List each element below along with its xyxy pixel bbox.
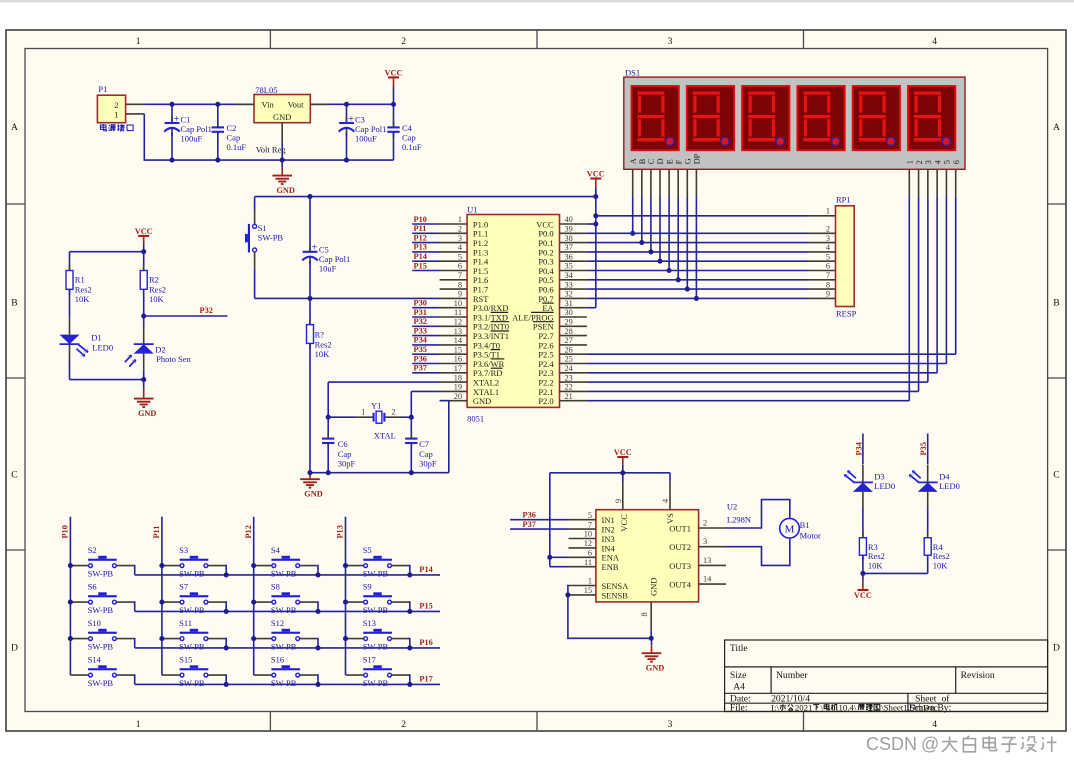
svg-text:A: A xyxy=(1053,122,1060,133)
svg-text:S12: S12 xyxy=(271,618,284,628)
svg-text:C1: C1 xyxy=(181,114,191,124)
svg-text:Drawn By:: Drawn By: xyxy=(909,702,951,713)
svg-text:Size: Size xyxy=(730,670,747,681)
svg-text:Cap: Cap xyxy=(338,449,352,459)
svg-text:1: 1 xyxy=(114,110,118,120)
svg-text:33: 33 xyxy=(565,280,573,289)
svg-text:File:: File: xyxy=(730,703,748,714)
svg-text:A: A xyxy=(629,158,638,164)
svg-text:14: 14 xyxy=(454,336,463,345)
svg-text:3: 3 xyxy=(668,719,673,730)
svg-text:38: 38 xyxy=(565,234,573,243)
svg-text:21: 21 xyxy=(565,392,573,401)
svg-text:SW-PB: SW-PB xyxy=(88,605,114,615)
svg-text:1: 1 xyxy=(136,36,141,47)
svg-text:SW-PB: SW-PB xyxy=(271,605,297,615)
svg-text:2: 2 xyxy=(401,36,406,47)
svg-text:S4: S4 xyxy=(271,545,281,555)
svg-text:0.1uF: 0.1uF xyxy=(402,142,422,152)
svg-text:P32: P32 xyxy=(200,306,213,315)
svg-text:P2.0: P2.0 xyxy=(538,396,553,406)
svg-text:VS: VS xyxy=(665,513,675,524)
svg-text:GND: GND xyxy=(276,186,294,195)
svg-text:100uF: 100uF xyxy=(181,133,203,143)
svg-text:GND: GND xyxy=(138,409,156,418)
svg-text:10uF: 10uF xyxy=(319,263,337,273)
svg-text:P34: P34 xyxy=(854,442,863,455)
svg-text:RP1: RP1 xyxy=(836,195,851,205)
svg-text:S17: S17 xyxy=(363,655,376,665)
svg-text:Revision: Revision xyxy=(961,670,995,681)
svg-text:SW-PB: SW-PB xyxy=(271,569,297,579)
svg-text:3: 3 xyxy=(703,537,707,546)
svg-text:S7: S7 xyxy=(179,582,188,592)
svg-text:RESP: RESP xyxy=(836,309,857,319)
svg-text:5: 5 xyxy=(588,511,592,520)
svg-text:E: E xyxy=(665,159,674,164)
svg-text:Title: Title xyxy=(730,643,748,654)
svg-text:13: 13 xyxy=(454,327,462,336)
svg-text:14: 14 xyxy=(703,575,712,584)
svg-text:24: 24 xyxy=(565,364,574,373)
svg-text:VCC: VCC xyxy=(385,69,403,78)
svg-text:SW-PB: SW-PB xyxy=(363,605,389,615)
svg-text:B: B xyxy=(11,298,17,309)
svg-text:26: 26 xyxy=(565,345,573,354)
svg-text:1: 1 xyxy=(588,577,592,586)
svg-text:P11: P11 xyxy=(152,526,161,539)
svg-text:9: 9 xyxy=(826,290,830,299)
svg-text:S10: S10 xyxy=(88,618,101,628)
svg-text:S5: S5 xyxy=(363,545,372,555)
svg-text:VCC: VCC xyxy=(854,591,872,600)
svg-text:M: M xyxy=(785,523,795,535)
svg-text:P15: P15 xyxy=(419,602,432,611)
svg-text:6: 6 xyxy=(458,262,462,271)
svg-text:D: D xyxy=(1053,643,1060,654)
svg-text:1: 1 xyxy=(906,160,915,164)
svg-text:VCC: VCC xyxy=(135,227,153,236)
svg-text:25: 25 xyxy=(565,355,573,364)
svg-text:9: 9 xyxy=(614,499,623,503)
svg-text:P14: P14 xyxy=(414,252,427,261)
svg-text:P30: P30 xyxy=(414,299,427,308)
svg-text:Cap: Cap xyxy=(227,133,241,143)
svg-text:P14: P14 xyxy=(419,565,432,574)
svg-text:31: 31 xyxy=(565,299,573,308)
svg-text:S2: S2 xyxy=(88,545,97,555)
svg-text:Y1: Y1 xyxy=(371,401,381,411)
svg-text:GND: GND xyxy=(473,396,491,406)
svg-text:Motor: Motor xyxy=(800,530,821,540)
svg-text:17: 17 xyxy=(454,364,462,373)
svg-text:F: F xyxy=(674,159,683,164)
svg-text:7: 7 xyxy=(588,520,592,529)
svg-text:S8: S8 xyxy=(271,582,280,592)
svg-text:S13: S13 xyxy=(363,618,376,628)
svg-text:Cap Pol1: Cap Pol1 xyxy=(319,254,350,264)
svg-text:8051: 8051 xyxy=(467,413,484,423)
svg-text:8: 8 xyxy=(640,612,649,616)
svg-text:32: 32 xyxy=(565,290,573,299)
svg-text:P36: P36 xyxy=(414,354,427,363)
svg-text:S16: S16 xyxy=(271,655,284,665)
svg-text:VCC: VCC xyxy=(614,448,632,457)
svg-text:P15: P15 xyxy=(414,261,427,270)
svg-text:40: 40 xyxy=(565,215,573,224)
svg-text:A4: A4 xyxy=(733,682,745,693)
svg-text:C6: C6 xyxy=(338,439,348,449)
svg-text:16: 16 xyxy=(454,355,462,364)
svg-text:D4: D4 xyxy=(939,472,950,482)
svg-text:12: 12 xyxy=(584,539,592,548)
svg-text:P31: P31 xyxy=(414,308,427,317)
svg-text:30: 30 xyxy=(565,308,573,317)
svg-text:2: 2 xyxy=(915,160,924,164)
svg-text:U2: U2 xyxy=(727,501,737,511)
svg-text:GND: GND xyxy=(649,578,659,596)
svg-text:Cap: Cap xyxy=(402,133,416,143)
svg-text:SW-PB: SW-PB xyxy=(363,642,389,652)
svg-text:S15: S15 xyxy=(179,655,192,665)
svg-text:C7: C7 xyxy=(419,439,429,449)
svg-text:B: B xyxy=(1053,298,1059,309)
svg-text:I:\: I:\ xyxy=(771,702,779,712)
svg-text:5: 5 xyxy=(826,252,830,261)
svg-text:D: D xyxy=(656,158,665,164)
svg-text:S11: S11 xyxy=(179,618,192,628)
svg-text:12: 12 xyxy=(454,318,462,327)
svg-text:D2: D2 xyxy=(155,345,165,355)
svg-text:2: 2 xyxy=(392,408,396,417)
svg-text:DP: DP xyxy=(693,153,702,164)
svg-text:3: 3 xyxy=(668,36,673,47)
svg-text:Vout: Vout xyxy=(288,100,305,110)
svg-text:5: 5 xyxy=(458,252,462,261)
svg-text:2: 2 xyxy=(703,518,707,527)
svg-text:D: D xyxy=(11,643,18,654)
svg-text:P17: P17 xyxy=(419,675,432,684)
svg-text:Res2: Res2 xyxy=(75,284,92,294)
svg-text:2: 2 xyxy=(826,225,830,234)
svg-text:30pF: 30pF xyxy=(419,458,437,468)
svg-text:C5: C5 xyxy=(319,244,329,254)
svg-text:36: 36 xyxy=(565,252,573,261)
svg-text:23: 23 xyxy=(565,373,573,382)
svg-text:Cap Pol1: Cap Pol1 xyxy=(355,124,386,134)
svg-text:OUT4: OUT4 xyxy=(669,580,691,590)
svg-text:Res2: Res2 xyxy=(868,551,885,561)
svg-text:LED0: LED0 xyxy=(939,481,960,491)
svg-text:S6: S6 xyxy=(88,582,97,592)
svg-text:C3: C3 xyxy=(355,114,365,124)
svg-text:P10: P10 xyxy=(414,215,427,224)
svg-text:SW-PB: SW-PB xyxy=(179,569,205,579)
svg-text:13: 13 xyxy=(703,556,711,565)
svg-text:Cap: Cap xyxy=(419,449,433,459)
svg-text:Cap Pol1: Cap Pol1 xyxy=(181,124,212,134)
svg-text:S14: S14 xyxy=(88,655,102,665)
svg-text:10K: 10K xyxy=(75,294,91,304)
svg-text:1: 1 xyxy=(361,408,365,417)
svg-text:10: 10 xyxy=(584,530,592,539)
svg-text:P1: P1 xyxy=(98,84,107,94)
svg-text:SW-PB: SW-PB xyxy=(179,605,205,615)
svg-text:10K: 10K xyxy=(315,349,331,359)
svg-text:2: 2 xyxy=(401,719,406,730)
svg-text:34: 34 xyxy=(565,271,574,280)
svg-text:10: 10 xyxy=(454,299,462,308)
svg-text:7: 7 xyxy=(826,271,830,280)
svg-text:100uF: 100uF xyxy=(355,133,377,143)
svg-text:A: A xyxy=(11,122,18,133)
svg-text:10K: 10K xyxy=(933,561,949,571)
svg-text:15: 15 xyxy=(454,345,462,354)
svg-text:G: G xyxy=(684,158,693,164)
svg-text:4: 4 xyxy=(932,719,937,730)
svg-text:1: 1 xyxy=(826,206,830,215)
svg-text:SW-PB: SW-PB xyxy=(88,678,114,688)
svg-text:DS1: DS1 xyxy=(625,67,640,77)
svg-text:1: 1 xyxy=(136,719,141,730)
svg-text:Photo Sen: Photo Sen xyxy=(156,354,191,364)
svg-text:3: 3 xyxy=(458,234,462,243)
svg-text:30pF: 30pF xyxy=(338,458,356,468)
svg-text:8: 8 xyxy=(826,280,830,289)
svg-text:VCC: VCC xyxy=(619,514,629,532)
svg-text:VCC: VCC xyxy=(587,170,605,179)
svg-text:SENSB: SENSB xyxy=(602,590,629,600)
svg-text:LED0: LED0 xyxy=(874,481,895,491)
svg-text:R?: R? xyxy=(315,329,325,339)
svg-text:37: 37 xyxy=(565,243,573,252)
svg-text:S3: S3 xyxy=(179,545,188,555)
svg-text:P34: P34 xyxy=(414,336,427,345)
svg-text:Number: Number xyxy=(776,670,808,681)
svg-text:28: 28 xyxy=(565,327,573,336)
svg-text:S9: S9 xyxy=(363,582,372,592)
svg-text:SW-PB: SW-PB xyxy=(363,678,389,688)
svg-text:0.1uF: 0.1uF xyxy=(227,142,247,152)
svg-text:Res2: Res2 xyxy=(149,284,166,294)
svg-text:SW-PB: SW-PB xyxy=(363,569,389,579)
svg-text:Res2: Res2 xyxy=(315,339,332,349)
svg-text:U1: U1 xyxy=(467,204,477,214)
svg-text:10K: 10K xyxy=(149,294,165,304)
svg-text:P37: P37 xyxy=(414,364,427,373)
svg-text:+: + xyxy=(348,114,354,125)
svg-text:11: 11 xyxy=(584,558,592,567)
svg-text:3: 3 xyxy=(826,234,830,243)
svg-text:GND: GND xyxy=(646,664,664,673)
svg-text:C: C xyxy=(647,158,656,164)
svg-text:ENB: ENB xyxy=(602,562,619,572)
svg-text:15: 15 xyxy=(584,586,592,595)
svg-text:27: 27 xyxy=(565,336,573,345)
svg-text:Vin: Vin xyxy=(262,100,275,110)
svg-text:5: 5 xyxy=(943,160,952,164)
svg-text:P13: P13 xyxy=(336,525,345,538)
svg-text:8: 8 xyxy=(458,280,462,289)
svg-text:78L05: 78L05 xyxy=(255,85,277,95)
svg-text:10K: 10K xyxy=(868,561,884,571)
svg-text:35: 35 xyxy=(565,262,573,271)
svg-text:C: C xyxy=(1053,470,1059,481)
svg-text:OUT2: OUT2 xyxy=(669,542,691,552)
svg-text:6: 6 xyxy=(952,160,961,164)
svg-text:B: B xyxy=(638,158,647,164)
svg-text:2021: 2021 xyxy=(795,702,813,712)
svg-text:B1: B1 xyxy=(800,520,810,530)
svg-text:18: 18 xyxy=(454,373,462,382)
svg-text:P10: P10 xyxy=(61,525,70,538)
svg-text:D1: D1 xyxy=(91,333,101,343)
svg-text:C4: C4 xyxy=(402,123,413,133)
svg-text:OUT3: OUT3 xyxy=(669,561,691,571)
svg-text:Res2: Res2 xyxy=(933,551,950,561)
svg-text:29: 29 xyxy=(565,318,573,327)
svg-text:LED0: LED0 xyxy=(92,342,113,352)
svg-text:P16: P16 xyxy=(419,638,432,647)
svg-text:P35: P35 xyxy=(414,345,427,354)
svg-text:SW-PB: SW-PB xyxy=(271,678,297,688)
svg-text:P32: P32 xyxy=(414,317,427,326)
svg-text:S1: S1 xyxy=(258,223,267,233)
svg-text:P11: P11 xyxy=(414,224,427,233)
svg-text:+: + xyxy=(312,243,318,254)
svg-text:SW-PB: SW-PB xyxy=(88,642,114,652)
svg-text:P33: P33 xyxy=(414,326,427,335)
svg-text:P12: P12 xyxy=(244,525,253,538)
svg-text:L298N: L298N xyxy=(727,514,751,524)
svg-text:11: 11 xyxy=(454,308,462,317)
svg-text:10.4\: 10.4\ xyxy=(839,702,857,712)
svg-text:SW-PB: SW-PB xyxy=(88,569,114,579)
svg-text:7: 7 xyxy=(458,271,462,280)
svg-text:19: 19 xyxy=(454,383,462,392)
svg-text:GND: GND xyxy=(304,490,322,499)
svg-text:P35: P35 xyxy=(919,442,928,455)
svg-text:2: 2 xyxy=(114,100,118,110)
svg-text:SW-PB: SW-PB xyxy=(179,642,205,652)
svg-text:SW-PB: SW-PB xyxy=(179,678,205,688)
svg-text:+: + xyxy=(174,114,180,125)
svg-text:20: 20 xyxy=(454,392,462,401)
svg-text:D3: D3 xyxy=(874,472,884,482)
svg-text:R1: R1 xyxy=(75,274,85,284)
svg-text:P12: P12 xyxy=(414,233,427,242)
svg-text:6: 6 xyxy=(826,262,830,271)
svg-text:R2: R2 xyxy=(149,274,159,284)
svg-text:GND: GND xyxy=(273,112,291,122)
svg-text:SW-PB: SW-PB xyxy=(271,642,297,652)
svg-text:2: 2 xyxy=(458,225,462,234)
svg-text:1: 1 xyxy=(458,215,462,224)
svg-text:6: 6 xyxy=(588,549,592,558)
svg-text:XTAL: XTAL xyxy=(374,430,396,440)
svg-text:39: 39 xyxy=(565,225,573,234)
svg-text:@: @ xyxy=(921,734,939,754)
svg-text:P36: P36 xyxy=(523,511,536,520)
svg-text:22: 22 xyxy=(565,383,573,392)
svg-text:SW-PB: SW-PB xyxy=(258,233,284,243)
svg-text:4: 4 xyxy=(932,36,937,47)
svg-text:3: 3 xyxy=(924,160,933,164)
svg-text:9: 9 xyxy=(458,290,462,299)
svg-text:C2: C2 xyxy=(227,123,237,133)
svg-text:CSDN: CSDN xyxy=(866,734,917,754)
svg-text:C: C xyxy=(11,470,17,481)
svg-text:P37: P37 xyxy=(523,520,536,529)
svg-text:P13: P13 xyxy=(414,243,427,252)
